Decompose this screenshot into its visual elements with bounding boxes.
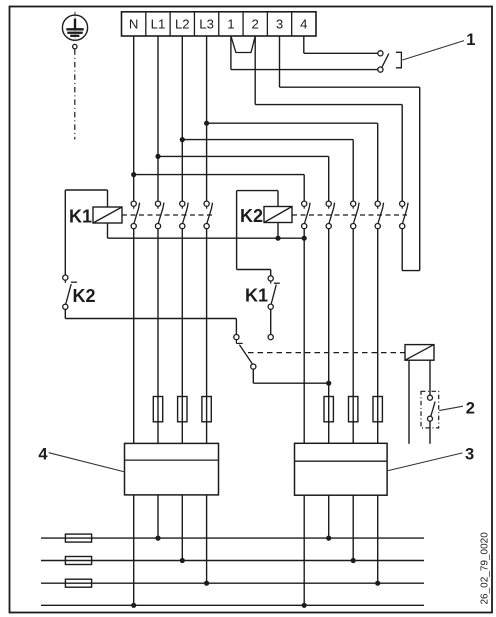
svg-text:K2: K2 bbox=[72, 286, 95, 306]
svg-text:26_02_79_0020: 26_02_79_0020 bbox=[479, 532, 490, 605]
svg-text:2: 2 bbox=[252, 17, 259, 32]
svg-text:L3: L3 bbox=[199, 17, 214, 32]
svg-text:4: 4 bbox=[38, 446, 48, 464]
svg-text:3: 3 bbox=[276, 17, 283, 32]
svg-text:2: 2 bbox=[466, 399, 475, 417]
svg-text:K2: K2 bbox=[240, 206, 263, 226]
svg-text:N: N bbox=[129, 17, 139, 32]
svg-text:K1: K1 bbox=[245, 286, 268, 306]
svg-text:L1: L1 bbox=[151, 17, 166, 32]
svg-text:4: 4 bbox=[300, 17, 307, 32]
svg-text:1: 1 bbox=[227, 17, 234, 32]
svg-text:K1: K1 bbox=[69, 206, 92, 226]
svg-text:1: 1 bbox=[466, 31, 475, 49]
svg-text:3: 3 bbox=[465, 446, 474, 464]
svg-text:L2: L2 bbox=[175, 17, 190, 32]
